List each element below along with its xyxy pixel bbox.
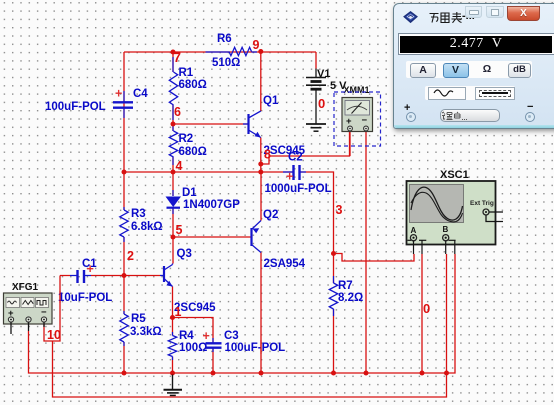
svg-text:Q1: Q1 bbox=[263, 95, 279, 107]
svg-text:6.8kΩ: 6.8kΩ bbox=[131, 221, 163, 233]
svg-text:Ext Trig: Ext Trig bbox=[470, 200, 494, 207]
svg-text:Q2: Q2 bbox=[263, 209, 278, 221]
svg-text:R6: R6 bbox=[217, 33, 232, 45]
svg-text:+: + bbox=[87, 262, 94, 276]
svg-text:R2: R2 bbox=[179, 133, 194, 145]
svg-text:1000uF-POL: 1000uF-POL bbox=[265, 183, 332, 195]
svg-text:100Ω: 100Ω bbox=[179, 342, 207, 354]
svg-text:4: 4 bbox=[176, 159, 183, 173]
svg-text:A: A bbox=[411, 226, 417, 235]
svg-text:R1: R1 bbox=[179, 67, 194, 79]
svg-text:R4: R4 bbox=[179, 330, 194, 342]
svg-text:Q3: Q3 bbox=[177, 248, 192, 260]
svg-text:C4: C4 bbox=[133, 88, 148, 100]
svg-text:3.3kΩ: 3.3kΩ bbox=[130, 326, 162, 338]
svg-text:C3: C3 bbox=[224, 330, 239, 342]
svg-text:5: 5 bbox=[176, 223, 183, 237]
svg-text:B: B bbox=[443, 225, 449, 234]
svg-text:0: 0 bbox=[318, 96, 325, 111]
svg-text:R5: R5 bbox=[131, 313, 146, 325]
svg-text:9: 9 bbox=[253, 38, 260, 52]
svg-text:7: 7 bbox=[174, 50, 182, 65]
svg-text:8: 8 bbox=[264, 148, 271, 162]
svg-text:10: 10 bbox=[47, 328, 61, 342]
svg-text:10uF-POL: 10uF-POL bbox=[58, 292, 112, 304]
svg-text:−: − bbox=[362, 115, 368, 126]
svg-text:510Ω: 510Ω bbox=[212, 57, 240, 69]
svg-text:R3: R3 bbox=[131, 208, 146, 220]
svg-text:0: 0 bbox=[423, 301, 430, 316]
svg-text:XFG1: XFG1 bbox=[12, 282, 39, 293]
svg-text:2SA954: 2SA954 bbox=[264, 258, 306, 270]
svg-text:+: + bbox=[346, 116, 352, 127]
svg-text:680Ω: 680Ω bbox=[179, 146, 207, 158]
svg-text:2: 2 bbox=[127, 249, 134, 263]
svg-text:D1: D1 bbox=[182, 187, 197, 199]
svg-text:XSC1: XSC1 bbox=[440, 169, 469, 181]
svg-text:6: 6 bbox=[174, 105, 181, 119]
svg-text:+: + bbox=[286, 170, 293, 184]
svg-text:XMM1: XMM1 bbox=[344, 85, 370, 95]
svg-text:3: 3 bbox=[336, 203, 343, 217]
svg-text:8.2Ω: 8.2Ω bbox=[338, 292, 363, 304]
svg-text:V1: V1 bbox=[317, 68, 330, 80]
svg-text:680Ω: 680Ω bbox=[179, 79, 207, 91]
svg-text:+: + bbox=[203, 329, 210, 343]
svg-text:R7: R7 bbox=[338, 280, 353, 292]
svg-text:1: 1 bbox=[175, 305, 182, 319]
svg-text:100uF-POL: 100uF-POL bbox=[225, 342, 286, 354]
svg-text:+: + bbox=[115, 87, 122, 101]
svg-text:1N4007GP: 1N4007GP bbox=[183, 199, 240, 211]
svg-text:100uF-POL: 100uF-POL bbox=[45, 101, 106, 113]
